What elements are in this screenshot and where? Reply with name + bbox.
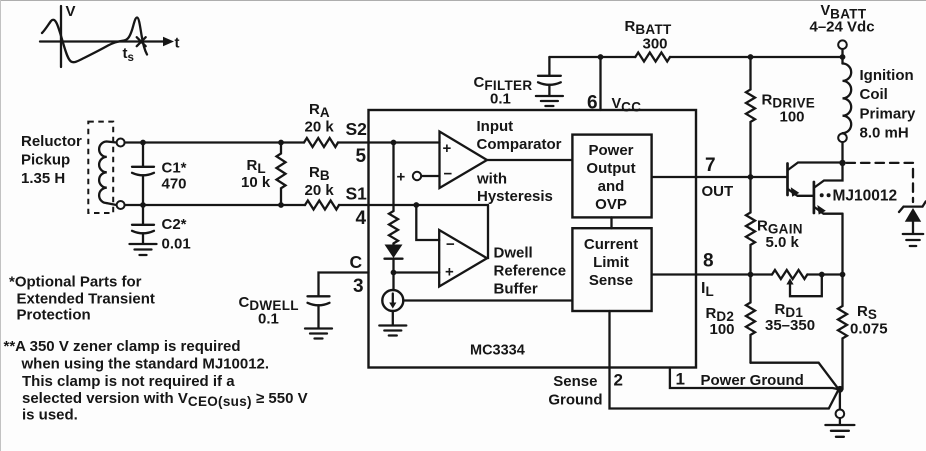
transistor Q2 collector <box>815 163 843 187</box>
node RL bottom junction <box>278 202 284 208</box>
reluctor pickup inductor L1 1.35 H <box>99 142 107 204</box>
svg-text:+: + <box>443 140 452 157</box>
svg-text:Limit: Limit <box>593 254 629 271</box>
terminal node S1 side <box>117 201 125 209</box>
svg-text:20 k: 20 k <box>305 119 335 136</box>
resistor RB 20 k <box>305 201 339 210</box>
wire dwell output feedback riser <box>487 205 488 258</box>
svg-text:10 k: 10 k <box>241 174 271 191</box>
node RL top junction <box>278 140 284 146</box>
waveform t axis arrowhead <box>163 37 174 47</box>
svg-text:Input: Input <box>477 118 514 135</box>
pin 2 sense ground lead <box>610 311 839 409</box>
ground below current source <box>379 326 406 336</box>
ground below CDWELL <box>305 329 332 339</box>
svg-text:when using the standard MJ1001: when using the standard MJ10012. <box>21 356 270 373</box>
svg-text:MJ10012: MJ10012 <box>833 188 898 205</box>
svg-text:Comparator: Comparator <box>477 136 562 153</box>
transistor Q1 base bar <box>786 164 789 196</box>
current source I1 <box>392 273 394 291</box>
transistor Q1 emitter <box>789 190 814 196</box>
node C1 bottom junction <box>140 202 146 208</box>
terminal VBATT <box>838 40 847 49</box>
block Power Output and OVP <box>572 135 651 218</box>
svg-text:+: + <box>445 264 454 281</box>
wire OVP block to current limit block <box>610 217 612 228</box>
svg-text:35–350: 35–350 <box>765 317 815 334</box>
svg-text:Extended Transient: Extended Transient <box>17 291 155 308</box>
wire Q2 emitter to RS rail <box>841 214 843 275</box>
svg-text:*Optional Parts for: *Optional Parts for <box>9 274 142 291</box>
svg-text:Protection: Protection <box>17 307 91 324</box>
wire S1 bottom rail <box>125 204 488 206</box>
svg-text:This clamp is not required if: This clamp is not required if a <box>22 373 235 390</box>
svg-text:OVP: OVP <box>595 196 627 213</box>
pin 6 VCC lead <box>599 57 601 110</box>
wire current source to current limit sense <box>403 299 572 301</box>
node pin3 junction <box>391 270 397 276</box>
svg-text:with: with <box>476 170 507 187</box>
resistor internal divider <box>389 211 398 243</box>
svg-text:0.075: 0.075 <box>850 321 888 338</box>
svg-text:Current: Current <box>584 236 638 253</box>
svg-text:4: 4 <box>356 208 367 229</box>
svg-text:Reference: Reference <box>494 263 567 280</box>
svg-text:is used.: is used. <box>22 407 78 424</box>
zener diode D2 350 V clamp <box>899 201 926 212</box>
waveform V axis <box>60 6 62 67</box>
svg-text:Sense: Sense <box>553 373 597 390</box>
capacitor C2 0.01 <box>142 205 144 224</box>
pin 8 IL lead <box>652 273 772 275</box>
IC U1 MC3334 outline <box>369 110 697 368</box>
svg-text:−: − <box>444 166 453 183</box>
svg-text:VCC: VCC <box>612 96 642 115</box>
resistor RL 10 k <box>277 143 286 206</box>
wire diode to pin3 rail <box>392 259 394 273</box>
hysteresis reference terminal <box>413 172 421 180</box>
ground below zener <box>903 234 923 246</box>
svg-text:5: 5 <box>356 146 367 167</box>
svg-text:−: − <box>446 236 455 253</box>
svg-text:4–24 Vdc: 4–24 Vdc <box>810 19 875 36</box>
resistor RBATT 300 <box>635 53 670 62</box>
node dwell feedback junction <box>413 202 419 208</box>
resistor RD2 100 <box>746 275 755 363</box>
wire VCC top rail <box>549 56 842 58</box>
wire coil bottom to terminal <box>107 203 117 205</box>
transistor Q1 collector <box>789 163 843 170</box>
capacitor CFILTER 0.1 <box>548 57 550 75</box>
ground below C2 <box>130 244 157 255</box>
node RDRIVE top junction <box>748 54 754 60</box>
resistor RD1 35-350 <box>772 270 807 279</box>
waveform curve <box>42 18 147 63</box>
wire comparator output to power output block <box>487 159 572 161</box>
svg-text:2: 2 <box>614 371 623 390</box>
svg-text:C1*: C1* <box>162 160 187 177</box>
wire S2 top rail <box>125 141 440 143</box>
wire coil to collector junction <box>841 142 843 163</box>
resistor RA 20 k <box>304 138 338 147</box>
transistor Q2 emitter <box>815 208 843 214</box>
transistor Q2 base bar <box>813 182 816 213</box>
node VBATT coil junction <box>840 54 846 60</box>
svg-text:20 k: 20 k <box>305 182 335 199</box>
svg-text:Ignition: Ignition <box>860 67 914 84</box>
capacitor C1 470 <box>142 143 144 167</box>
wire hysteresis terminal to comparator inverting input <box>421 175 439 177</box>
frame edge top <box>0 0 926 2</box>
svg-text:6: 6 <box>587 93 598 114</box>
ground below CFILTER <box>536 96 563 106</box>
svg-text:Reluctor: Reluctor <box>21 133 82 150</box>
node wiper junction <box>819 272 825 278</box>
capacitor CDWELL 0.1 <box>319 273 369 296</box>
svg-text:Primary: Primary <box>860 106 917 123</box>
svg-text:Buffer: Buffer <box>494 281 538 298</box>
svg-text:V: V <box>66 3 76 20</box>
diode D1 internal <box>385 245 403 259</box>
svg-text:**A 350 V zener clamp is requi: **A 350 V zener clamp is required <box>4 338 241 355</box>
waveform ts crossing mark <box>137 37 146 46</box>
pin 1 power ground lead <box>670 368 839 390</box>
wire dashed zener clamp lead <box>847 163 914 202</box>
wire pin3 rail to dwell buffer non-inverting input <box>394 271 440 273</box>
RD1 wiper arrow <box>786 278 793 284</box>
wire current source to ground <box>392 311 394 325</box>
svg-text:Coil: Coil <box>860 86 888 103</box>
reluctor pickup dashed enclosure <box>88 122 113 213</box>
node emitter RS junction <box>840 272 846 278</box>
svg-text:+: + <box>397 169 406 186</box>
wire coil top to terminal <box>107 142 117 143</box>
svg-text:0.01: 0.01 <box>162 236 191 253</box>
svg-text:0.1: 0.1 <box>490 91 511 108</box>
svg-text:Sense: Sense <box>589 272 633 289</box>
svg-text:Power Ground: Power Ground <box>701 372 804 389</box>
svg-text:1: 1 <box>676 370 685 389</box>
svg-text:100: 100 <box>710 321 735 338</box>
wire internal divider <box>392 143 394 212</box>
svg-text:Output: Output <box>586 160 635 177</box>
svg-text:and: and <box>598 178 625 195</box>
svg-text:Dwell: Dwell <box>494 245 533 262</box>
terminal ground <box>836 410 845 419</box>
svg-text:C2*: C2* <box>162 216 187 233</box>
svg-text:100: 100 <box>780 109 805 126</box>
svg-text:8.0 mH: 8.0 mH <box>860 125 909 142</box>
terminal coil bottom <box>838 134 847 143</box>
op-amp U1b dwell reference buffer <box>439 230 487 287</box>
node collector junction <box>839 160 845 166</box>
svg-text:Ground: Ground <box>548 392 602 409</box>
node pin8 junction <box>748 272 754 278</box>
node pin7 junction <box>748 174 754 180</box>
svg-text:t: t <box>175 35 180 52</box>
svg-text:Pickup: Pickup <box>21 152 70 169</box>
svg-text:3: 3 <box>353 276 364 297</box>
resistor RDRIVE 100 <box>746 57 755 177</box>
terminal node S2 side <box>117 139 125 147</box>
svg-text:Hysteresis: Hysteresis <box>477 188 553 205</box>
resistor RGAIN 5.0 k <box>746 177 755 275</box>
ground symbol main <box>825 425 854 437</box>
wire RD2 to ground junction <box>751 363 839 390</box>
svg-text:5.0 k: 5.0 k <box>766 234 800 251</box>
svg-text:0.1: 0.1 <box>258 311 279 328</box>
resistor RS 0.075 <box>838 275 847 390</box>
svg-text:300: 300 <box>643 36 668 53</box>
pin 7 OUT lead <box>652 176 788 178</box>
inductor ignition coil primary 8.0 mH <box>841 57 843 64</box>
svg-text:S2: S2 <box>346 119 368 139</box>
node main ground junction <box>837 386 844 393</box>
wire resistor to diode <box>392 244 394 246</box>
svg-text:7: 7 <box>705 155 716 176</box>
block Current Limit Sense <box>572 228 651 311</box>
wire feedback junction down to inverting input <box>416 205 439 240</box>
svg-text:C: C <box>350 252 363 272</box>
wire RD1 to emitter rail <box>808 273 843 275</box>
svg-text:OUT: OUT <box>702 183 734 200</box>
svg-text:S1: S1 <box>346 184 368 204</box>
node internal divider top <box>391 140 397 146</box>
node pin6 junction <box>598 54 604 60</box>
label **MJ10012 <box>820 193 824 197</box>
svg-text:8: 8 <box>703 251 714 272</box>
frame edge left <box>0 0 2 451</box>
svg-text:1.35 H: 1.35 H <box>21 170 65 187</box>
svg-text:470: 470 <box>162 176 187 193</box>
svg-text:MC3334: MC3334 <box>470 343 525 359</box>
waveform t axis <box>40 40 166 42</box>
node C1 top junction <box>140 140 146 146</box>
op-amp U1a input comparator <box>440 132 488 189</box>
svg-text:Power: Power <box>588 142 633 159</box>
